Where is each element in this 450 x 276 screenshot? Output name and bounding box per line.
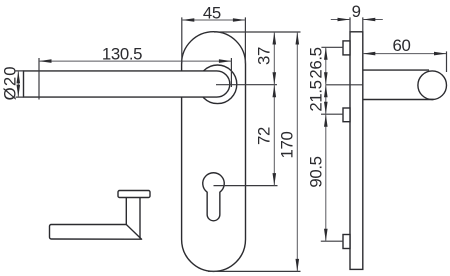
svg-text:90.5: 90.5 bbox=[306, 156, 325, 187]
lug1 centerline extension bbox=[321, 46, 343, 48]
dim 170 arrow down bbox=[296, 259, 300, 272]
dim 26.5 arrow up bbox=[324, 47, 328, 60]
dim 9 tail right bbox=[363, 19, 383, 21]
dim 130.5 line bbox=[39, 60, 231, 62]
dim 72 arrow down bbox=[273, 173, 277, 186]
lever 3d neck right edge bbox=[139, 198, 141, 239]
lever 3d grip bbox=[50, 224, 142, 239]
dim 60 line bbox=[363, 53, 447, 55]
svg-text:26.5: 26.5 bbox=[306, 47, 325, 78]
dim 45 line bbox=[182, 19, 246, 21]
dim 26.5 line bbox=[325, 47, 327, 85]
side lever bottom edge bbox=[363, 99, 434, 101]
dim 9 extension lines bbox=[350, 17, 363, 31]
backplate (front view, 45x170 rounded plate) bbox=[182, 32, 246, 272]
dim 9 tail left bbox=[331, 19, 350, 21]
lug2 centerline extension bbox=[321, 113, 344, 115]
dim Ø20 arrow up bbox=[17, 71, 21, 84]
lever bar (front view stadium shape) bbox=[24, 71, 230, 97]
side lever top edge bbox=[363, 69, 429, 71]
svg-text:170: 170 bbox=[278, 132, 297, 159]
svg-text:60: 60 bbox=[393, 36, 411, 55]
rose circle bbox=[198, 65, 237, 104]
dim 9 arrow right (pointing left) bbox=[363, 18, 376, 22]
lever centerline extension bbox=[216, 84, 277, 86]
dim 45 extension lines bbox=[182, 17, 246, 63]
dim 72 arrow up bbox=[273, 85, 277, 98]
dim 90.5 arrow down bbox=[324, 229, 328, 242]
dim 170 arrow up bbox=[296, 32, 300, 45]
dim 130.5 arrow right bbox=[219, 59, 232, 63]
plate top extension line bbox=[214, 31, 301, 33]
dim 90.5 arrow up bbox=[324, 114, 328, 127]
screw lug middle bbox=[343, 108, 350, 122]
dim 26.5 arrow down bbox=[324, 72, 328, 85]
dim 9 arrow left (pointing right) bbox=[338, 18, 351, 22]
side lever centerline extension bbox=[326, 84, 363, 86]
side lever grip circle bbox=[418, 71, 447, 100]
svg-text:45: 45 bbox=[203, 3, 221, 22]
dim 21.5 arrow up bbox=[324, 85, 328, 98]
svg-text:Ø20: Ø20 bbox=[1, 65, 20, 100]
lever 3d neck left edge bbox=[125, 198, 127, 225]
keyhole euro profile cylinder bbox=[203, 173, 224, 221]
dim 37 arrow up bbox=[273, 32, 277, 45]
dim 45 arrow left bbox=[182, 18, 195, 22]
svg-text:21.5: 21.5 bbox=[306, 80, 325, 111]
dim Ø20 line bbox=[17, 71, 19, 97]
dim Ø20 extension lines bbox=[16, 71, 24, 97]
svg-text:9: 9 bbox=[352, 2, 361, 21]
lever 3d cap flange bbox=[118, 191, 150, 198]
lug3 centerline extension bbox=[321, 240, 344, 242]
dim 37 arrow down bbox=[273, 72, 277, 85]
dim Ø20 arrow down bbox=[17, 85, 21, 98]
dim 60 arrow left bbox=[363, 52, 376, 56]
keyhole centerline extension bbox=[214, 185, 278, 187]
dim 21.5 line bbox=[325, 85, 327, 114]
dim 60 arrow right bbox=[434, 52, 447, 56]
svg-text:130.5: 130.5 bbox=[102, 44, 142, 63]
svg-text:37: 37 bbox=[255, 47, 274, 65]
dim 72 line bbox=[273, 85, 275, 186]
dim 45 arrow right bbox=[233, 18, 246, 22]
screw lug bottom bbox=[343, 235, 350, 249]
dim 60 extension line right bbox=[446, 51, 448, 72]
dim 130.5 extension line right bbox=[230, 58, 232, 87]
dim 21.5 arrow down bbox=[324, 102, 328, 115]
side plate bbox=[350, 32, 363, 270]
dim 130.5 arrow left bbox=[39, 59, 52, 63]
svg-text:72: 72 bbox=[255, 127, 274, 145]
screw lug top bbox=[343, 41, 350, 55]
dim 130.5 extension line left bbox=[38, 58, 40, 100]
dim 37 line bbox=[273, 32, 275, 85]
dim 170 line bbox=[296, 32, 298, 271]
plate bottom extension line bbox=[208, 270, 301, 272]
dim 90.5 line bbox=[325, 114, 327, 241]
